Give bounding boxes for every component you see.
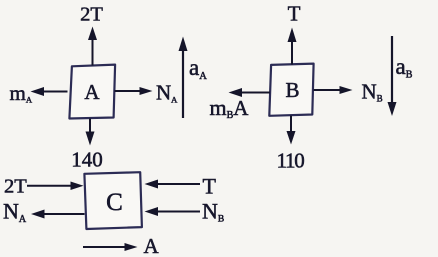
force arrow 110 (down from B) [287, 116, 296, 145]
force arrow NA (out of C, left bottom) [31, 210, 85, 219]
acceleration arrow aB (down, right of B) [388, 36, 397, 116]
svg-text:2T: 2T [80, 4, 103, 26]
force arrow NB (into C, right bottom) [145, 207, 201, 216]
block A box [69, 65, 115, 119]
acceleration arrow aA (up, right of A) [179, 37, 188, 119]
force arrow 140 (down from A) [86, 119, 95, 146]
force arrow NA (right from A) [115, 87, 153, 95]
force arrow mA (left from A) [31, 87, 68, 96]
force arrow NB (right from B) [314, 86, 353, 94]
force arrow T (up from B) [288, 28, 297, 65]
block C box [84, 172, 141, 229]
svg-text:C: C [106, 189, 123, 216]
svg-text:B: B [285, 78, 299, 102]
svg-text:A: A [144, 234, 160, 257]
force arrow T (into C, right top) [145, 180, 201, 189]
force arrow 2T (into C, left top) [27, 182, 84, 191]
force arrow 2T (up from A) [88, 27, 97, 66]
svg-text:T: T [203, 174, 217, 199]
acceleration arrow A (below C) [83, 243, 138, 251]
block B box [269, 64, 313, 116]
svg-text:2T: 2T [4, 176, 27, 198]
force arrow mBA (left from B) [229, 88, 271, 97]
svg-text:T: T [288, 2, 301, 26]
svg-text:110: 110 [276, 149, 304, 173]
svg-text:140: 140 [71, 148, 103, 172]
svg-text:A: A [84, 80, 100, 104]
